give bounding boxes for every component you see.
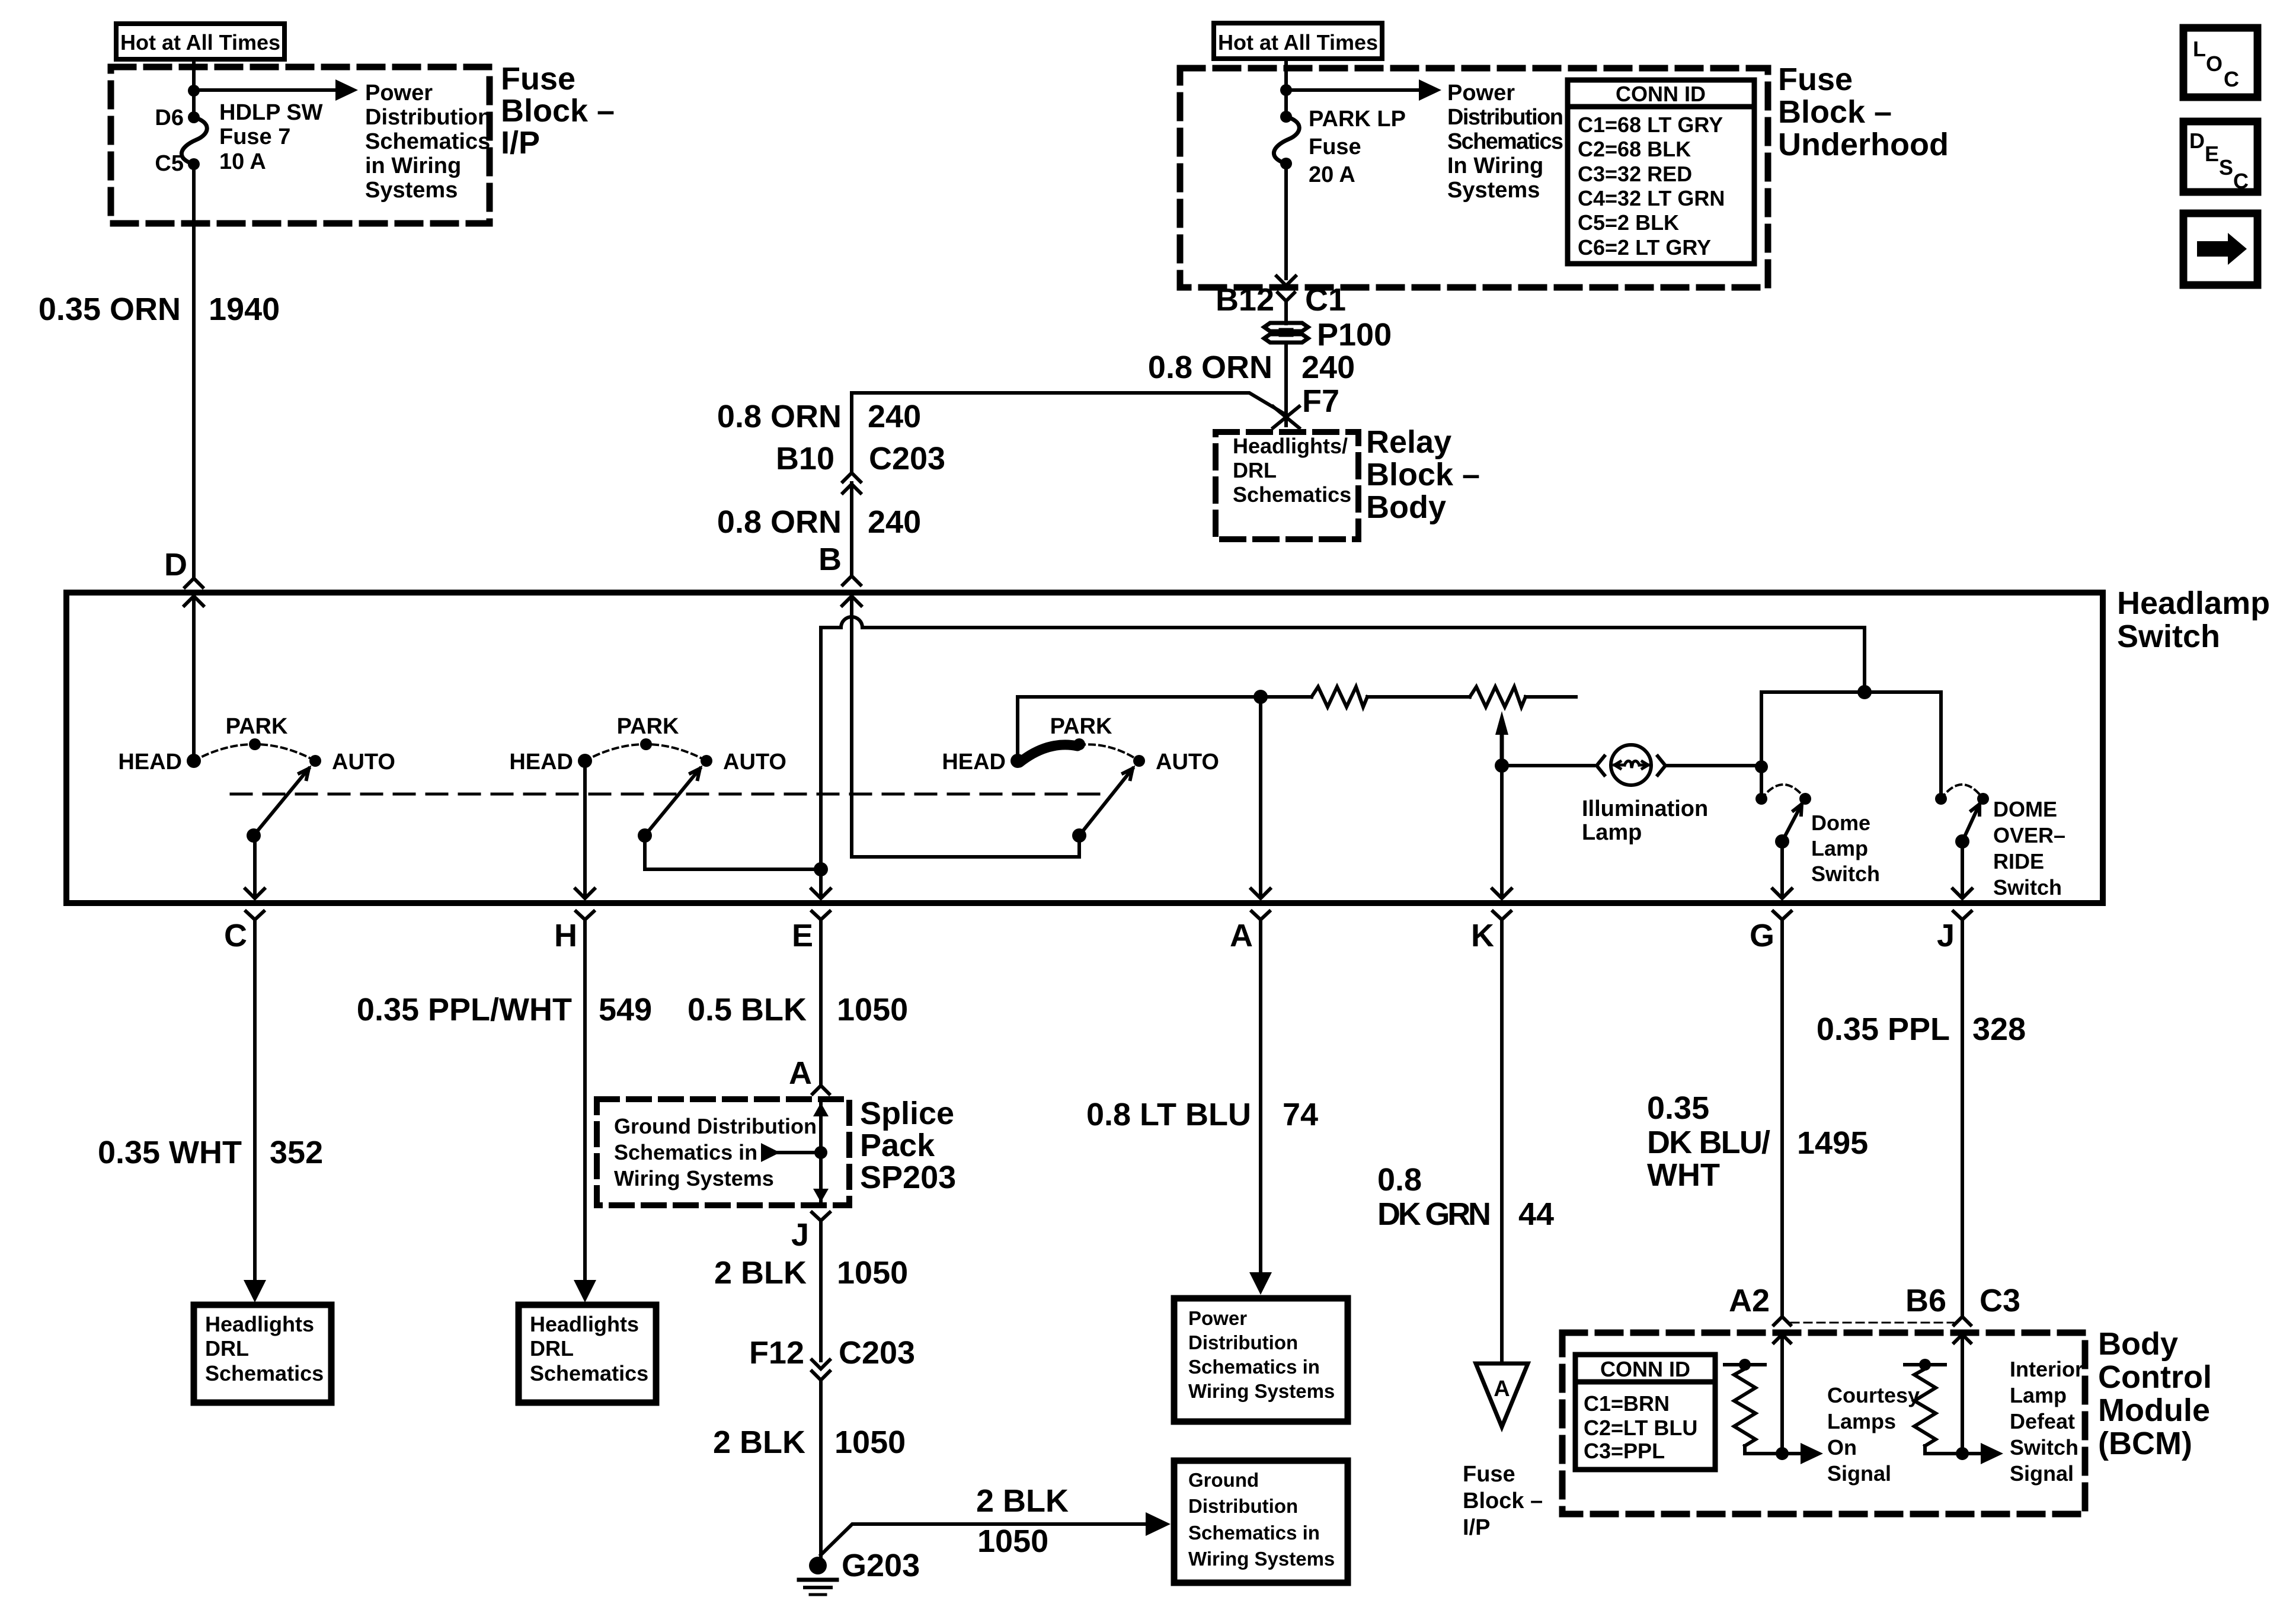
switch travel arc 2 — [585, 744, 706, 761]
svg-text:1050: 1050 — [837, 1255, 908, 1291]
node interior lamp defeat switch signal — [1956, 1447, 1969, 1460]
svg-text:0.35 ORN: 0.35 ORN — [39, 292, 181, 327]
svg-text:C5=2 BLK: C5=2 BLK — [1578, 210, 1679, 235]
svg-text:D: D — [2189, 129, 2205, 153]
svg-text:DRL: DRL — [1233, 458, 1277, 482]
switch gang dashed line — [231, 793, 1099, 796]
icon forward arrow — [2183, 213, 2257, 285]
svg-text:Headlamp: Headlamp — [2117, 585, 2270, 621]
pin K connector — [1493, 911, 1511, 920]
svg-text:2 BLK: 2 BLK — [714, 1255, 807, 1291]
body control module dashed box — [1562, 1333, 2085, 1514]
node A junction — [1253, 690, 1268, 704]
pull-up resistor R3 — [1725, 1363, 1765, 1366]
svg-text:C5: C5 — [155, 151, 184, 176]
svg-text:AUTO: AUTO — [332, 750, 395, 774]
svg-text:C6=2 LT GRY: C6=2 LT GRY — [1578, 235, 1711, 260]
node junction at park lp fuse feed — [1280, 84, 1292, 96]
svg-text:in Wiring: in Wiring — [365, 153, 461, 178]
svg-text:PARK: PARK — [226, 714, 288, 739]
reference box Ground Distribution — [1174, 1461, 1348, 1583]
svg-text:Distribution: Distribution — [365, 105, 491, 130]
svg-text:L: L — [2193, 37, 2206, 61]
svg-text:J: J — [791, 1217, 809, 1253]
fuse block I/P dashed box — [111, 67, 490, 223]
svg-text:74: 74 — [1283, 1097, 1318, 1132]
reference box Headlights DRL Schematics (H) — [519, 1305, 656, 1403]
svg-text:J: J — [1937, 918, 1955, 953]
svg-text:AUTO: AUTO — [1156, 750, 1219, 774]
svg-text:Distribution: Distribution — [1188, 1331, 1298, 1353]
svg-text:Wiring Systems: Wiring Systems — [1188, 1380, 1335, 1402]
svg-text:0.8 LT BLU: 0.8 LT BLU — [1086, 1097, 1251, 1132]
node PARK 2 — [640, 738, 652, 750]
wire B6 into BCM — [1961, 1336, 1964, 1454]
svg-text:Illumination: Illumination — [1582, 796, 1708, 821]
pin C connector — [246, 911, 264, 920]
svg-text:20 A: 20 A — [1309, 162, 1355, 187]
svg-text:44: 44 — [1518, 1196, 1554, 1232]
svg-text:SP203: SP203 — [860, 1160, 956, 1195]
dome lamp switch SW-DL — [1755, 793, 1767, 805]
illumination lamp DS1 — [1502, 764, 1594, 767]
svg-text:PARK LP: PARK LP — [1309, 107, 1406, 132]
svg-text:H: H — [554, 918, 577, 953]
svg-text:Block –: Block – — [1366, 457, 1480, 492]
svg-text:Lamp: Lamp — [1582, 820, 1642, 845]
svg-text:D: D — [164, 547, 187, 582]
svg-text:C4=32 LT GRN: C4=32 LT GRN — [1578, 186, 1725, 210]
wire B into switch 3 — [850, 598, 853, 857]
wire wiper2 to E junction — [645, 836, 821, 869]
node PARK 1 — [249, 738, 261, 750]
svg-text:Distribution: Distribution — [1447, 105, 1563, 130]
svg-text:PARK: PARK — [1050, 714, 1112, 739]
svg-text:Pack: Pack — [860, 1128, 935, 1163]
dome switch feed tee — [1857, 685, 1872, 699]
svg-text:K: K — [1471, 918, 1494, 953]
svg-text:1940: 1940 — [209, 292, 280, 327]
svg-text:Courtesy: Courtesy — [1827, 1383, 1920, 1407]
fuse block I/P triangle terminal A — [1476, 1363, 1528, 1427]
svg-text:Schematics: Schematics — [365, 129, 490, 154]
svg-text:F7: F7 — [1302, 383, 1339, 419]
svg-text:B10: B10 — [776, 441, 834, 476]
svg-text:Ground: Ground — [1188, 1469, 1259, 1491]
svg-text:A2: A2 — [1729, 1283, 1770, 1318]
power label Hot at All Times (right) — [1214, 23, 1382, 59]
svg-text:A: A — [789, 1055, 812, 1091]
svg-text:Switch: Switch — [1811, 862, 1880, 886]
wire 0.35 PPL/WHT 549 pin H to headlights reference — [583, 920, 587, 1279]
pin E connector — [812, 911, 830, 920]
wire HEAD2 to pin H — [583, 761, 587, 896]
wire 2 BLK 1050 to ground G203 — [819, 1381, 823, 1558]
svg-text:Schematics: Schematics — [205, 1361, 324, 1385]
svg-text:G: G — [1750, 918, 1774, 953]
svg-text:Switch: Switch — [2117, 619, 2220, 654]
node SP203 junction — [814, 1146, 827, 1159]
svg-text:Power: Power — [1188, 1307, 1247, 1329]
rheostat resistor R1 — [1261, 695, 1312, 699]
svg-text:Power: Power — [365, 81, 433, 105]
svg-text:P100: P100 — [1317, 317, 1392, 353]
svg-text:WHT: WHT — [1647, 1157, 1720, 1193]
svg-text:Fuse 7: Fuse 7 — [219, 124, 290, 149]
svg-text:328: 328 — [1972, 1012, 2026, 1047]
svg-text:On: On — [1827, 1435, 1857, 1459]
wire wiper1 to pin C — [253, 836, 257, 896]
svg-text:Switch: Switch — [2010, 1435, 2078, 1459]
svg-text:PARK: PARK — [617, 714, 679, 739]
splice reference pointer — [778, 1151, 821, 1154]
wire arrow to Power Distribution reference — [194, 88, 339, 92]
svg-text:I/P: I/P — [1463, 1515, 1490, 1540]
svg-text:In Wiring: In Wiring — [1447, 153, 1543, 178]
node AUTO 1 — [309, 755, 321, 767]
svg-text:S: S — [2219, 155, 2233, 180]
wire HEAD3 up to A rail — [1018, 697, 1261, 761]
svg-text:0.35 WHT: 0.35 WHT — [98, 1135, 242, 1170]
pin J connector — [1953, 911, 1971, 920]
svg-text:Defeat: Defeat — [2010, 1409, 2075, 1433]
reference box Power Distribution — [1174, 1298, 1348, 1422]
fuse block underhood dashed box — [1180, 68, 1768, 287]
svg-text:A: A — [1230, 918, 1253, 953]
internal top rail from E — [821, 626, 841, 629]
switch wiper 3 — [1072, 828, 1086, 843]
wire 0.8 ORN 240 branch down to B10 — [850, 393, 853, 473]
icon DESC — [2183, 121, 2257, 192]
wire 0.35 ORN 1940 from fuse C5 to headlamp switch D — [192, 164, 196, 577]
wire A to pin A — [1259, 697, 1262, 896]
svg-text:Wiring Systems: Wiring Systems — [614, 1166, 774, 1190]
svg-text:Headlights/: Headlights/ — [1233, 434, 1348, 458]
svg-text:0.35 PPL: 0.35 PPL — [1817, 1012, 1950, 1047]
svg-text:Control: Control — [2098, 1359, 2212, 1395]
svg-text:OVER–: OVER– — [1993, 823, 2065, 847]
svg-text:E: E — [2205, 142, 2219, 166]
svg-text:C1=68 LT GRY: C1=68 LT GRY — [1578, 113, 1723, 137]
wiper engaged thick arc HEAD-PARK — [1019, 745, 1077, 763]
svg-text:E: E — [792, 918, 813, 953]
svg-text:Power: Power — [1447, 81, 1515, 105]
svg-text:0.8: 0.8 — [1377, 1162, 1422, 1198]
wire 0.35 WHT 352 pin C to headlights reference — [253, 920, 257, 1279]
node junction at fuse feed — [188, 85, 200, 97]
svg-text:CONN ID: CONN ID — [1616, 82, 1706, 106]
svg-text:C: C — [2224, 67, 2239, 91]
svg-text:0.8 ORN: 0.8 ORN — [1148, 350, 1272, 385]
node lamp junction — [1755, 760, 1768, 773]
fuse HDLP SW Fuse 7 10A — [188, 111, 200, 123]
svg-text:D6: D6 — [155, 105, 184, 130]
wire dome lamp switch to pin G — [1780, 841, 1784, 896]
svg-text:C203: C203 — [839, 1335, 915, 1371]
node PARK 3 — [1073, 738, 1085, 750]
svg-text:Lamps: Lamps — [1827, 1409, 1896, 1433]
svg-text:C3=PPL: C3=PPL — [1584, 1439, 1665, 1463]
wire 0.8 DK GRN 44 pin K to fuse block I/P — [1500, 920, 1504, 1361]
svg-text:C2=68 BLK: C2=68 BLK — [1578, 137, 1691, 161]
svg-text:HEAD: HEAD — [509, 750, 573, 774]
switch wiper 1 — [247, 828, 261, 843]
svg-text:Lamp: Lamp — [2010, 1383, 2067, 1407]
pull-up resistor R4 — [1905, 1363, 1945, 1366]
svg-text:C2=LT BLU: C2=LT BLU — [1584, 1416, 1697, 1440]
svg-text:C3: C3 — [1980, 1283, 2020, 1318]
svg-text:Fuse: Fuse — [1463, 1462, 1515, 1487]
svg-text:1050: 1050 — [837, 992, 908, 1028]
svg-text:1495: 1495 — [1797, 1125, 1868, 1161]
wire 0.8 LT BLU 74 pin A to power distribution reference — [1259, 920, 1262, 1271]
svg-text:2 BLK: 2 BLK — [976, 1483, 1069, 1519]
splice pack SP203 dashed box — [597, 1099, 849, 1205]
wire dome override to pin J — [1961, 841, 1964, 896]
svg-text:Dome: Dome — [1811, 811, 1870, 835]
svg-text:Schematics: Schematics — [1233, 482, 1351, 507]
pin H connector — [576, 911, 594, 920]
switch travel arc 1 — [194, 744, 315, 761]
svg-text:B: B — [818, 542, 842, 577]
wire K to pin K — [1500, 766, 1504, 896]
svg-text:Relay: Relay — [1366, 424, 1451, 460]
svg-text:Systems: Systems — [365, 178, 458, 203]
power label Hot at All Times (left) — [116, 24, 284, 59]
svg-text:(BCM): (BCM) — [2098, 1426, 2192, 1461]
svg-text:I/P: I/P — [501, 125, 540, 161]
wire from hot bus into underhood fuse block — [1284, 59, 1288, 116]
svg-text:Distribution: Distribution — [1188, 1495, 1298, 1517]
svg-text:C1=BRN: C1=BRN — [1584, 1391, 1670, 1416]
node E junction — [814, 862, 828, 876]
svg-text:Hot at All Times: Hot at All Times — [120, 30, 280, 55]
svg-text:Interior: Interior — [2010, 1357, 2083, 1381]
wire A2 into BCM — [1780, 1336, 1784, 1454]
svg-text:2 BLK: 2 BLK — [713, 1425, 805, 1460]
svg-text:240: 240 — [868, 504, 921, 540]
svg-text:DRL: DRL — [205, 1336, 249, 1361]
svg-text:10 A: 10 A — [219, 149, 266, 174]
svg-text:Ground Distribution: Ground Distribution — [614, 1114, 817, 1138]
svg-text:AUTO: AUTO — [723, 750, 786, 774]
svg-text:Hot at All Times: Hot at All Times — [1218, 30, 1378, 55]
svg-text:Fuse: Fuse — [1309, 135, 1361, 159]
svg-text:1050: 1050 — [977, 1523, 1048, 1559]
relay block body dashed box — [1216, 432, 1358, 539]
svg-text:C: C — [2233, 169, 2249, 193]
svg-text:HEAD: HEAD — [942, 750, 1006, 774]
svg-text:Module: Module — [2098, 1393, 2210, 1428]
svg-text:HEAD: HEAD — [118, 750, 182, 774]
svg-text:CONN ID: CONN ID — [1600, 1357, 1690, 1381]
svg-text:Underhood: Underhood — [1778, 127, 1949, 162]
svg-text:1050: 1050 — [834, 1425, 906, 1460]
svg-text:B6: B6 — [1905, 1283, 1946, 1318]
wire to dome lamp switch contact — [1760, 692, 1763, 799]
CONN ID table underhood — [1568, 80, 1754, 264]
wire 0.5 BLK 1050 pin E to splice pack — [819, 920, 823, 1084]
svg-text:RIDE: RIDE — [1993, 849, 2044, 873]
dome override switch SW-DO — [1935, 793, 1947, 805]
svg-text:0.35 PPL/WHT: 0.35 PPL/WHT — [357, 992, 572, 1028]
node AUTO 2 — [701, 755, 712, 767]
connector gang dashed link A2-B6 — [1791, 1322, 1953, 1324]
svg-text:0.8 ORN: 0.8 ORN — [717, 504, 842, 540]
ground G203 — [809, 1557, 827, 1574]
wire 2 BLK 1050 to F12 — [819, 1221, 823, 1361]
node HEAD 2 — [578, 754, 592, 768]
svg-text:Signal: Signal — [1827, 1461, 1891, 1486]
switch travel arc 3 dashed — [1079, 744, 1139, 761]
svg-text:C3=32 RED: C3=32 RED — [1578, 162, 1692, 186]
svg-text:Wiring Systems: Wiring Systems — [1188, 1548, 1335, 1570]
svg-text:C: C — [224, 918, 247, 953]
node HEAD 3 — [1011, 754, 1025, 768]
svg-text:F12: F12 — [749, 1335, 804, 1371]
svg-text:Signal: Signal — [2010, 1461, 2074, 1486]
svg-text:0.35: 0.35 — [1647, 1090, 1709, 1126]
svg-text:Switch: Switch — [1993, 875, 2062, 900]
CONN ID table BCM — [1575, 1355, 1715, 1470]
svg-text:0.5 BLK: 0.5 BLK — [687, 992, 807, 1028]
svg-text:Block –: Block – — [501, 93, 615, 129]
svg-text:Lamp: Lamp — [1811, 836, 1868, 860]
reference box Headlights DRL Schematics (C) — [194, 1305, 331, 1403]
wire arrow to Power Distribution reference (underhood) — [1286, 88, 1422, 92]
wire through splice pack — [819, 1103, 823, 1202]
svg-text:549: 549 — [599, 992, 652, 1028]
rheostat resistor R2 — [1470, 687, 1526, 707]
svg-text:Systems: Systems — [1447, 178, 1540, 203]
svg-text:Block –: Block – — [1463, 1489, 1543, 1513]
svg-text:Block –: Block – — [1778, 94, 1892, 130]
svg-text:DK GRN: DK GRN — [1377, 1196, 1491, 1232]
icon LOC — [2183, 28, 2257, 97]
svg-text:240: 240 — [868, 399, 921, 434]
svg-text:DRL: DRL — [530, 1336, 574, 1361]
fuse PARK LP Fuse 20A — [1280, 111, 1292, 123]
svg-text:0.8 ORN: 0.8 ORN — [717, 399, 842, 434]
svg-text:Schematics: Schematics — [1447, 129, 1563, 154]
svg-text:Schematics: Schematics — [530, 1361, 648, 1385]
wire from fuse to B12 — [1284, 164, 1288, 279]
wire D to switch1 HEAD — [192, 598, 196, 761]
wire 0.35 PPL 328 pin J to BCM B6/C3 — [1961, 920, 1964, 1314]
ground branch wire 2 BLK 1050 to ground distribution reference — [821, 1524, 1149, 1555]
terminal X at F7 — [1273, 406, 1299, 428]
svg-text:Body: Body — [2098, 1326, 2178, 1362]
svg-text:352: 352 — [270, 1135, 323, 1170]
wire 0.8 ORN 240 to headlamp switch B — [850, 483, 853, 575]
svg-text:Body: Body — [1366, 489, 1446, 525]
svg-text:B12: B12 — [1216, 282, 1274, 318]
svg-text:HDLP SW: HDLP SW — [219, 100, 323, 125]
connector fork at D — [185, 578, 203, 587]
svg-text:Headlights: Headlights — [530, 1312, 639, 1336]
switch wiper 2 — [638, 828, 652, 843]
node HEAD 1 — [187, 754, 201, 768]
svg-text:G203: G203 — [842, 1548, 920, 1583]
headlamp switch box — [66, 593, 2103, 903]
END PART 1 — [66, 585, 2270, 903]
svg-text:C1: C1 — [1305, 282, 1346, 318]
svg-text:Schematics in: Schematics in — [1188, 1356, 1320, 1378]
svg-text:Splice: Splice — [860, 1096, 954, 1131]
wire 0.8 ORN 240 from P100 to F7 — [1284, 343, 1288, 425]
rheostat wiper arrow — [1495, 711, 1508, 735]
wire 0.35 DK BLU/WHT 1495 pin G to BCM A2 — [1780, 920, 1784, 1314]
node K junction — [1495, 758, 1509, 773]
branch wire to B10 C203 — [852, 393, 1286, 415]
svg-text:Fuse: Fuse — [501, 61, 575, 97]
node AUTO 3 — [1133, 755, 1145, 767]
svg-text:A: A — [1494, 1377, 1510, 1401]
svg-text:Fuse: Fuse — [1778, 62, 1853, 97]
terminal J of splice pack — [812, 1212, 830, 1221]
svg-text:Schematics in: Schematics in — [614, 1140, 757, 1164]
node courtesy lamps on signal — [1776, 1447, 1789, 1460]
pin A connector — [1252, 911, 1269, 920]
pin G connector — [1773, 911, 1791, 920]
wire from hot bus into fuse block — [192, 59, 196, 116]
wire E ground rail — [819, 628, 823, 896]
svg-text:Schematics in: Schematics in — [1188, 1522, 1320, 1544]
wire to dome override contact — [1939, 692, 1943, 799]
svg-text:Headlights: Headlights — [205, 1312, 314, 1336]
inline connector P100 — [1264, 323, 1308, 331]
svg-text:O: O — [2206, 52, 2223, 76]
svg-text:240: 240 — [1302, 350, 1355, 385]
svg-text:C203: C203 — [869, 441, 945, 476]
svg-text:DK BLU/: DK BLU/ — [1647, 1125, 1770, 1160]
svg-text:DOME: DOME — [1993, 797, 2057, 821]
